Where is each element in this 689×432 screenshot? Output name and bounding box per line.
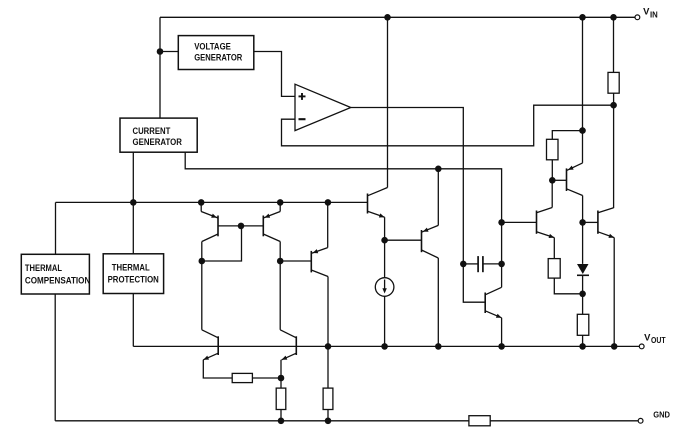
node current source rail junction [381, 343, 388, 350]
wire emitter junction to R6 [280, 378, 282, 388]
svg-text:GND: GND [653, 410, 670, 420]
terminal GND [638, 418, 643, 423]
label V_IN [643, 7, 658, 20]
wire Q9 collector down through diode chain [582, 196, 584, 264]
transistor Q3 (PNP) [311, 248, 328, 277]
svg-text:V: V [643, 7, 650, 18]
wire thermal compensation to ground rail [54, 294, 56, 421]
resistor R5 [577, 314, 589, 335]
thermal protection block [103, 254, 163, 294]
node Q10 emitter rail junction [611, 343, 618, 350]
wire Q11 collector to R2 bottom node [551, 180, 553, 207]
label V_OUT [644, 332, 666, 345]
wire R4 bottom to diode node [554, 278, 582, 294]
wire Q1 collector [201, 242, 203, 262]
label THERMAL (compensation) [25, 263, 63, 273]
node compensation cap right junction [498, 261, 505, 268]
wire Q11 base [502, 221, 537, 223]
wire Q11 emitter to R4 [553, 238, 555, 259]
thermal compensation block [21, 254, 89, 294]
terminal V_OUT [639, 344, 644, 349]
wire Q10 base [583, 221, 598, 223]
node Q9 base junction [549, 177, 556, 184]
label GENERATOR (voltage) [194, 53, 243, 63]
wire bus corner to thermal compensation [55, 202, 57, 254]
wire R6 to ground rail [280, 410, 282, 421]
wire R2 bottom to Q9 base node [551, 160, 553, 181]
wire Q7 emitter up to bias line [437, 169, 439, 226]
wire R1 bottom to feedback node [613, 93, 615, 105]
svg-text:COMPENSATION: COMPENSATION [25, 276, 90, 286]
wire top rail to resistor R1 [613, 17, 615, 72]
svg-text:IN: IN [650, 10, 658, 19]
wire Q2 collector [279, 242, 281, 262]
svg-text:V: V [644, 332, 651, 343]
node Q11 base / bias junction [498, 219, 505, 226]
wire Q8 base [463, 264, 485, 302]
resistor R3 [232, 373, 252, 382]
transistor Q5 (NPN) [280, 330, 296, 360]
node Q1 emitter junction [198, 199, 205, 206]
wire op-amp - input feedback [282, 105, 614, 146]
wire feedback node down to Q10 collector [613, 105, 615, 208]
node cap left junction [460, 261, 467, 268]
op-amp error amplifier [295, 84, 351, 130]
wire Vout rail [133, 345, 639, 347]
wire cap right lead [483, 263, 502, 265]
wire Q1 emitter drop [200, 202, 202, 211]
label CURRENT [133, 126, 171, 136]
wire main bias bus [56, 201, 368, 203]
capacitor C1 [478, 256, 483, 272]
wire current generator to bus [132, 152, 134, 202]
node Q3 collector rail junction [325, 343, 332, 350]
transistor Q7 (PNP) [422, 225, 439, 258]
wire current generator bias line [185, 152, 501, 264]
wire Q7 base [385, 239, 422, 241]
node top rail junction B [579, 14, 586, 21]
wire diode to R5 [582, 276, 584, 314]
node Q2 collector junction [277, 258, 284, 265]
resistor R6 [276, 388, 286, 409]
wire op-amp output [351, 108, 464, 264]
svg-text:GENERATOR: GENERATOR [133, 137, 183, 147]
wire mirror output down to Q5 collector [279, 261, 281, 330]
wire GND rail [55, 420, 638, 422]
wire current source top [384, 240, 386, 278]
wire Q3 base [280, 260, 311, 262]
wire voltage generator input [160, 51, 178, 53]
svg-text:CURRENT: CURRENT [133, 126, 171, 136]
node diode/R4 junction [579, 291, 586, 298]
wire Q2 emitter drop [279, 202, 281, 211]
wire current source bottom to Vout rail [384, 296, 386, 346]
svg-text:PROTECTION: PROTECTION [108, 275, 159, 285]
wire Q3 emitter up to bus [327, 202, 329, 247]
wire R5 bottom to Vout rail [582, 335, 584, 346]
node top rail junction C [610, 14, 617, 21]
resistor R2 [547, 139, 559, 160]
transistor Q6 (NPN) [368, 188, 388, 218]
wire Q9 base [552, 179, 566, 181]
wire voltage generator output to op-amp + input [254, 52, 295, 97]
node R7 ground junction [325, 418, 332, 425]
resistor R4 [548, 259, 560, 279]
label PROTECTION [108, 275, 159, 285]
node bus junction at thermal protection [130, 199, 137, 206]
label GENERATOR (current) [133, 137, 183, 147]
current generator block [120, 118, 197, 152]
wire cap left lead [463, 263, 478, 265]
transistor Q11 (NPN) [537, 208, 555, 239]
wire rail junction to R7 [327, 346, 329, 388]
node R5 rail junction [579, 343, 586, 350]
wire left drop from top rail to current generator [159, 17, 161, 118]
node feedback/R1 junction [610, 102, 617, 109]
resistor R7 [323, 388, 333, 409]
wire Q3 collector to Vout rail [327, 277, 329, 347]
wire vertical from top rail to Q6 collector [387, 17, 389, 187]
node emitter resistor junction [278, 375, 285, 382]
label VOLTAGE [194, 42, 231, 52]
diode D1 [577, 264, 589, 275]
wire Q8 emitter to Vout rail [501, 318, 503, 347]
transistor Q8 (NPN) [485, 287, 501, 318]
wire Q5 emitter down [280, 360, 282, 378]
wire Q8 collector [501, 264, 503, 287]
wire top V_IN rail [160, 16, 635, 18]
transistor Q9 (PNP) [567, 163, 583, 196]
svg-text:THERMAL: THERMAL [112, 262, 150, 272]
transistor Q4 (NPN) [202, 330, 218, 360]
terminal V_IN [635, 15, 640, 20]
node Q7 collector rail junction [435, 343, 442, 350]
wire thermal protection to output transistors base [132, 294, 134, 347]
node top rail junction A [384, 14, 391, 21]
wire mirror diode link [202, 226, 242, 261]
resistor R8 (ground sense) [469, 416, 490, 426]
node mirror base junction [238, 223, 245, 230]
svg-text:VOLTAGE: VOLTAGE [194, 42, 231, 52]
wire thermal protection top [132, 202, 134, 253]
wire Q4 collector up to mirror [201, 261, 203, 330]
label GND [653, 410, 670, 420]
node voltage generator tap [157, 48, 164, 55]
transistor Q10 (NPN) [598, 208, 614, 238]
wire vertical from top rail to Q9 emitter [582, 17, 584, 163]
svg-text:GENERATOR: GENERATOR [194, 53, 243, 63]
node R6 ground junction [278, 418, 285, 425]
voltage generator block [178, 36, 254, 70]
node Q6 emitter junction [381, 237, 388, 244]
node Q7 emitter junction [435, 166, 442, 173]
wire R3 to emitter junction [252, 377, 281, 379]
label COMPENSATION [25, 276, 90, 286]
transistor Q2 (PNP) [263, 212, 280, 242]
node Q3 emitter junction [325, 199, 332, 206]
node Q1 collector junction [199, 258, 206, 265]
svg-text:OUT: OUT [651, 336, 666, 345]
transistor Q1 (PNP) [201, 212, 218, 242]
wire Q10 emitter to Vout rail [613, 238, 615, 347]
wire R2 top tap [552, 131, 582, 140]
node Q8 emitter rail junction [498, 343, 505, 350]
svg-text:THERMAL: THERMAL [25, 263, 63, 273]
wire Q7 collector to Vout rail [437, 258, 439, 346]
wire Q4 emitter to resistor R3 [203, 360, 232, 378]
resistor R1 [608, 72, 619, 93]
node R2 top junction [579, 127, 586, 134]
node Q10 base junction [579, 219, 586, 226]
wire R7 to ground rail [327, 410, 329, 421]
node Q2 emitter junction [277, 199, 284, 206]
label THERMAL (protection) [112, 262, 150, 272]
current source I1 [375, 278, 394, 297]
wire Q6 emitter to current source node [384, 217, 386, 240]
wire Q1 base to mirror node [218, 225, 263, 227]
